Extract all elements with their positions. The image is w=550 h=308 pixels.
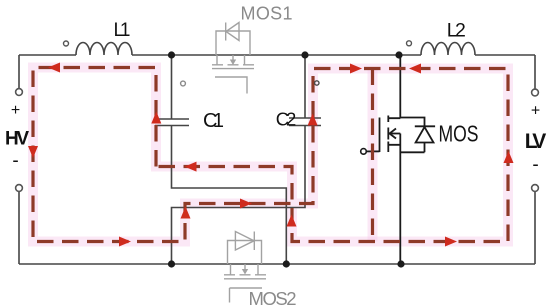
inductor L1 (76, 43, 132, 56)
svg-text:+: + (531, 103, 540, 120)
MOS1 gate plate (212, 68, 254, 70)
capacitor C1 (155, 119, 189, 126)
svg-text:MOS2: MOS2 (249, 288, 297, 308)
arrow up on LV riser (504, 151, 514, 163)
svg-text:LV: LV (525, 130, 547, 153)
red dashed riser at x372 (371, 69, 374, 242)
MOS1 drain/source legs (217, 55, 245, 65)
MOS1 body lead (232, 55, 234, 63)
arrow right on mid segment (240, 199, 252, 209)
MOS body lead (390, 133, 401, 135)
arrow left on top-right segment (409, 64, 421, 74)
halo main loop (33, 68, 508, 242)
arrow down on left segment (28, 146, 38, 158)
MOS gate lead (367, 150, 380, 152)
svg-text:C2: C2 (276, 109, 297, 130)
svg-text:HV: HV (5, 128, 29, 149)
transistor MOS1 (top, gray) (212, 23, 254, 94)
arrow up beside C1 (151, 112, 161, 124)
MOS2 body-diode cathode bar (253, 232, 255, 251)
HV+ terminal (16, 89, 23, 96)
node top-C1 junction (168, 51, 175, 58)
pink halo of dashed current path (33, 68, 508, 242)
arrow up beside C2 (308, 114, 318, 126)
wire LV right verticals (534, 55, 536, 264)
svg-text:MOS: MOS (439, 121, 479, 147)
MOS1 body-diode cathode bar (225, 23, 227, 41)
MOS1 gate circle (181, 81, 186, 86)
MOS2 channel segments (224, 274, 266, 276)
L1 polarity dot (64, 41, 69, 46)
svg-text:+: + (11, 102, 20, 119)
MOS2 body-diode loop (228, 241, 262, 265)
MOS2 body lead (244, 264, 246, 272)
wire HV left verticals (18, 55, 20, 264)
HV- terminal (16, 185, 23, 192)
transistor MOS2 (bottom, gray) (224, 232, 266, 303)
MOS channel segments (387, 116, 389, 153)
svg-text:-: - (532, 155, 538, 176)
red dashed current loop (33, 68, 508, 242)
L2 polarity dot (407, 41, 412, 46)
C2 branch terminal circle (315, 81, 319, 85)
MOS source lead (389, 134, 401, 265)
MOS2 gate bracket (230, 288, 263, 303)
MOS body-diode triangle (416, 127, 434, 143)
node bottom-MOS junction (397, 260, 404, 267)
arrow right on bottom-left segment (119, 237, 131, 247)
arrow left on mid-left segment (185, 162, 197, 172)
MOS1 body-diode triangle (226, 23, 239, 41)
MOS1 body-diode loop (216, 31, 250, 55)
MOS body-diode anode wire (400, 143, 424, 153)
arrow right on top-mid segment (350, 64, 362, 74)
MOS drain lead (389, 55, 401, 118)
arrow up on x292 riser (287, 215, 297, 227)
LV- terminal (532, 185, 539, 192)
LV+ terminal (532, 89, 539, 96)
halo x372 riser (368, 69, 378, 242)
wire bottom rail (19, 263, 535, 265)
red flow arrows (28, 63, 514, 247)
node bottom-left junction (168, 260, 175, 267)
MOS gate plate (379, 118, 381, 153)
MOS1 body arrowhead (230, 60, 236, 66)
svg-text:MOS1: MOS1 (241, 4, 293, 24)
svg-text:L1: L1 (114, 20, 131, 41)
node top-C2 junction (301, 51, 308, 58)
wire top rail (19, 43, 535, 265)
MOS1 channel segments (212, 64, 254, 66)
inductor L2 (421, 43, 475, 56)
node top-MOS junction (395, 51, 402, 58)
MOS2 drain/source legs (231, 264, 259, 275)
arrow left on top-left segment (48, 63, 60, 73)
svg-text:C1: C1 (203, 110, 224, 132)
svg-text:L2: L2 (447, 20, 466, 42)
capacitor C2 (289, 118, 321, 126)
transistor MOS (right, black) (367, 55, 436, 264)
MOS body-diode cathode bar (400, 118, 435, 127)
arrow up on x185 riser (181, 207, 191, 219)
MOS2 body-diode triangle (235, 232, 254, 251)
MOS1 gate bracket (215, 77, 247, 94)
wire C2 branch (172, 55, 306, 264)
node bottom-C1 junction (283, 260, 290, 267)
MOS gate circle (361, 149, 367, 155)
MOS body arrow (390, 129, 397, 139)
svg-text:-: - (12, 151, 18, 172)
arrow right on bottom-right segment (445, 237, 457, 247)
MOS2 gate plate (224, 278, 266, 280)
wire C1 branch (172, 55, 287, 264)
MOS2 body arrowhead (242, 269, 248, 275)
